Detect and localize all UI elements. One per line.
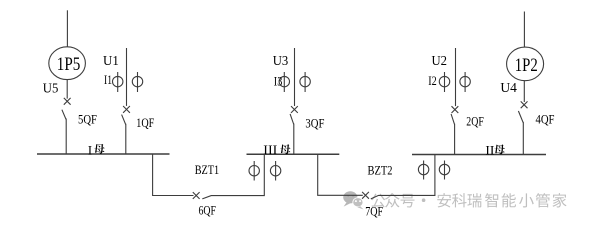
svg-text:7QF: 7QF xyxy=(365,204,383,218)
svg-text:1QF: 1QF xyxy=(136,116,154,130)
wire incoming feeder to 1P5 xyxy=(66,10,68,47)
CT I2 left xyxy=(439,76,449,86)
CT left of BZT2 riser xyxy=(418,164,428,174)
wire 1P5 to 5QF xyxy=(66,80,68,99)
bus III (III母) xyxy=(247,153,340,155)
svg-text:BZT2: BZT2 xyxy=(368,164,393,178)
watermark wechat icon xyxy=(343,191,363,209)
CT right of BZT1 riser xyxy=(270,166,280,176)
breaker 7QF (tie) xyxy=(362,192,369,199)
svg-text:U5: U5 xyxy=(43,82,59,97)
breaker 6QF (tie) xyxy=(193,192,200,199)
svg-text:BZT1: BZT1 xyxy=(195,163,220,177)
source circle 1P5 xyxy=(49,47,86,80)
breaker 2QF xyxy=(452,106,459,113)
svg-text:U4: U4 xyxy=(500,81,517,96)
svg-text:3QF: 3QF xyxy=(305,116,324,130)
wire feeder U2 xyxy=(455,48,457,106)
svg-text:1P2: 1P2 xyxy=(515,55,538,76)
svg-text:I3: I3 xyxy=(274,74,283,89)
wire 1P2 to 4QF xyxy=(523,81,525,102)
bus II (II母) xyxy=(412,154,546,156)
watermark text 公众号·安科瑞智能小管家 xyxy=(371,193,566,207)
svg-text:U1: U1 xyxy=(103,54,119,69)
bus I (I母) xyxy=(37,153,170,155)
svg-text:III: III xyxy=(263,143,277,157)
svg-text:I1: I1 xyxy=(104,72,112,87)
CT right of BZT2 riser xyxy=(439,164,449,174)
CT right of U3 xyxy=(300,76,310,86)
svg-text:I2: I2 xyxy=(428,73,437,88)
CT right of U2 xyxy=(460,76,470,86)
wire feeder U1 xyxy=(126,48,128,106)
svg-text:5QF: 5QF xyxy=(78,113,97,127)
svg-text:U2: U2 xyxy=(432,54,448,69)
source circle 1P2 xyxy=(507,47,544,81)
CT I1 left xyxy=(113,76,123,86)
breaker 3QF xyxy=(291,106,298,113)
svg-text:4QF: 4QF xyxy=(536,113,555,127)
svg-text:II: II xyxy=(485,144,494,158)
wire incoming feeder to 1P2 xyxy=(523,12,525,48)
svg-text:I: I xyxy=(88,144,92,158)
svg-text:1P5: 1P5 xyxy=(57,54,81,75)
CT left of BZT1 riser xyxy=(249,166,259,176)
wire drop from bus I to 6QF xyxy=(153,154,194,196)
wire feeder U3 xyxy=(294,48,296,106)
breaker 5QF xyxy=(64,98,71,105)
svg-text:6QF: 6QF xyxy=(199,204,217,218)
svg-text:U3: U3 xyxy=(273,54,289,69)
svg-text:2QF: 2QF xyxy=(466,115,484,129)
breaker 4QF xyxy=(521,101,528,108)
CT I3 left xyxy=(279,76,289,86)
wire drop from bus III to 7QF xyxy=(318,154,363,195)
CT right of U1 xyxy=(132,76,142,86)
breaker 1QF xyxy=(123,106,130,113)
